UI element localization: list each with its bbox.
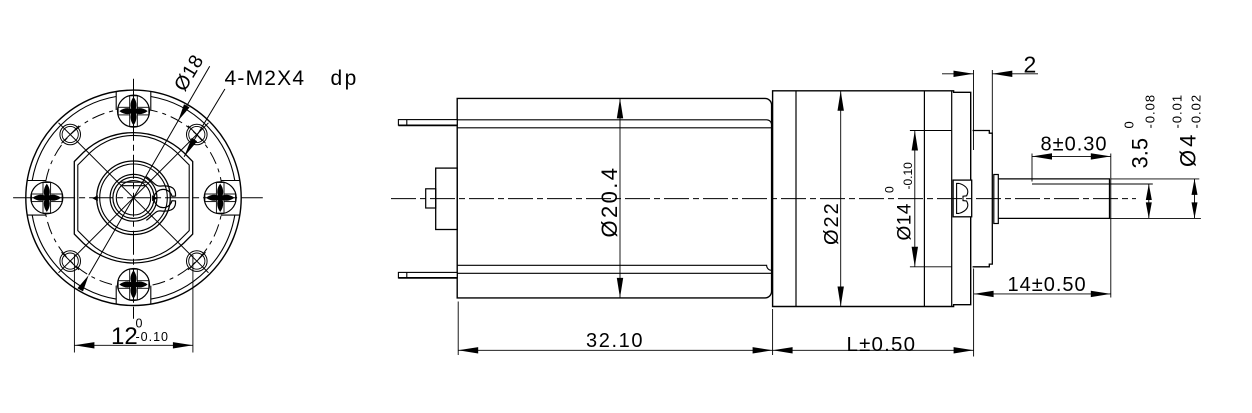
front view: shaft flat chord: [120, 181, 147, 183]
rear bushing tip rectangle: [426, 189, 436, 208]
front view horizontal centerline: [13, 197, 263, 199]
svg-text:-0.01: -0.01: [1170, 94, 1185, 129]
screw top (phillips): [118, 95, 150, 127]
front view: center boss inner circle: [100, 164, 168, 232]
small arrow on centerline right: [152, 195, 157, 201]
side view horizontal centerline: [391, 198, 1136, 200]
rear bearing boss rectangle: [436, 168, 458, 229]
front view: center boss outer circle: [97, 161, 171, 235]
dimension diameter-4 arrows: [1192, 179, 1198, 195]
terminal pin bottom: [398, 272, 457, 278]
front view: motor outer flange circle: [26, 90, 241, 305]
front view: face plate inner outline: [78, 135, 189, 260]
dimension 32.10 extension lines: [457, 302, 459, 356]
gearbox joint line 3 (front cap): [951, 91, 953, 307]
front view: diagonal centerline NW-SE through M2 holes: [59, 123, 209, 273]
dimension 3.5 arrows: [1146, 184, 1152, 200]
dimension diameter-22 arrows: [838, 91, 844, 111]
front view: bearing bore circle: [110, 174, 157, 221]
front view: shaft tip chamfer circle: [116, 181, 150, 215]
output bearing housing rectangle on front face: [953, 180, 972, 217]
dimension 12 line: [74, 344, 192, 346]
M2 tapped hole upper-right: [187, 124, 208, 145]
screw pocket left: [27, 180, 46, 182]
gearbox joint line 1: [795, 91, 797, 307]
screw pocket right: [221, 180, 240, 182]
leader arrow 4-M2X4: [184, 138, 197, 157]
screw right (phillips): [204, 182, 236, 214]
front view vertical centerline: [133, 79, 135, 319]
motor can seam line top 1: [457, 120, 771, 125]
dimension 3.5 line: [1148, 184, 1150, 218]
dimension 8+-0.30 arrows: [1032, 153, 1052, 159]
svg-text:14±0.50: 14±0.50: [1008, 274, 1087, 296]
output bearing inner outline: [957, 183, 960, 213]
terminal pin top: [398, 120, 457, 126]
svg-text:8±0.30: 8±0.30: [1041, 134, 1108, 156]
front view: e-clip retaining ring on shaft: [146, 177, 175, 221]
front view: output shaft circle (D-shaft): [113, 177, 154, 218]
dimension 14+-0.50 arrows: [974, 291, 994, 297]
M2 tapped hole lower-left: [60, 251, 81, 272]
output bearing spherical profile arcs: [959, 183, 968, 213]
front view: shaft tip flat chord: [121, 185, 145, 187]
leader line 4-M2X4: [184, 89, 225, 157]
dimension 2 extension lines: [973, 70, 975, 150]
front view: inner flange ring (interrupted by screw pockets): [32, 97, 235, 300]
dimension L+-0.50 line: [773, 349, 974, 351]
front view: bolt circle (dashed, Marked 18): [44, 109, 223, 288]
dimension 2 line with outside arrows: [942, 73, 974, 75]
svg-text:4-M2X4: 4-M2X4: [225, 67, 306, 90]
shaft collar ring: [994, 175, 999, 224]
svg-text:12: 12: [111, 323, 138, 350]
svg-text:-0.10: -0.10: [901, 162, 915, 190]
svg-text:Ø4: Ø4: [1175, 132, 1200, 167]
shaft top extension line: [1111, 178, 1200, 180]
dimension diameter-14 arrows: [912, 131, 918, 151]
dimension 32.10 line: [458, 349, 772, 351]
motor can seam line bottom 1: [457, 265, 771, 270]
svg-text:Ø20.4: Ø20.4: [597, 166, 622, 238]
dimension diameter-20.4 line: [619, 98, 621, 298]
svg-text:0: 0: [883, 186, 897, 193]
svg-text:-0.08: -0.08: [1143, 94, 1158, 129]
svg-text:Ø14: Ø14: [894, 203, 915, 240]
dimension 32.10 arrows: [458, 347, 478, 353]
small arrow on centerline left: [92, 195, 98, 201]
screw left (phillips): [31, 182, 63, 214]
svg-text:0: 0: [136, 317, 143, 331]
dimension diameter-14 extension lines: [910, 130, 952, 132]
gearbox housing outline: [773, 91, 971, 307]
screw pocket bottom: [115, 286, 117, 305]
dimension 12 arrows: [74, 342, 94, 348]
dimension 14+-0.50 line: [974, 293, 1111, 295]
svg-text:32.10: 32.10: [586, 330, 644, 352]
output shaft outline: [998, 179, 1109, 219]
M2 tapped hole upper-left: [60, 124, 81, 145]
svg-text:dp: dp: [331, 67, 359, 90]
dimension diameter-22 line: [840, 91, 842, 307]
front view: diagonal centerline NE-SW through M2 holes: [59, 123, 209, 273]
motor can seam line bottom 2: [457, 272, 771, 274]
shaft flat line: [1032, 183, 1110, 185]
svg-text:2: 2: [1024, 52, 1037, 78]
screw pocket top: [115, 92, 117, 111]
shaft flat extension line: [1110, 183, 1153, 185]
svg-text:-0.10: -0.10: [136, 330, 170, 344]
dimension diameter-18 arrow upper (outside pointing inward): [178, 104, 189, 120]
front view: gearbox face plate outer outline (12mm flats): [74, 133, 192, 263]
dimension 8+-0.30 extension line: [1031, 154, 1033, 182]
dimension diameter-20.4 arrows: [617, 98, 623, 118]
motor can seam line top 2: [457, 127, 771, 129]
dimension 8+-0.30 line: [1032, 155, 1111, 157]
front boss outline (2mm plate): [973, 131, 993, 267]
motor body outline: [457, 98, 771, 298]
dimension diameter-4 line: [1194, 179, 1196, 219]
svg-text:3.5: 3.5: [1128, 138, 1153, 169]
dimension diameter-18 line through center: [89, 66, 210, 275]
M2 tapped hole lower-right: [187, 251, 208, 272]
svg-text:L±0.50: L±0.50: [847, 333, 917, 356]
dimension diameter-18 arrow lower (outside pointing inward): [77, 275, 88, 291]
svg-text:0: 0: [1122, 121, 1137, 128]
dimension 12 extension lines: [73, 255, 75, 353]
svg-text:-0.02: -0.02: [1189, 94, 1204, 129]
gearbox joint line 2: [923, 91, 925, 307]
dimension diameter-14 line: [914, 131, 916, 267]
dimension L+-0.50 arrows: [773, 347, 793, 353]
screw bottom (phillips): [118, 269, 150, 301]
shaft bottom extension line: [1110, 217, 1201, 219]
svg-text:Ø22: Ø22: [821, 201, 843, 245]
